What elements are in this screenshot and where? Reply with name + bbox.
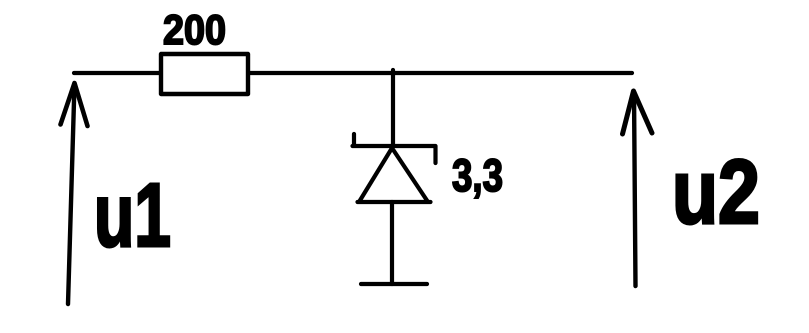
svg-text:3,3: 3,3 xyxy=(452,150,503,201)
svg-text:u2: u2 xyxy=(672,142,760,243)
svg-text:200: 200 xyxy=(163,6,226,53)
svg-text:u1: u1 xyxy=(94,166,171,266)
